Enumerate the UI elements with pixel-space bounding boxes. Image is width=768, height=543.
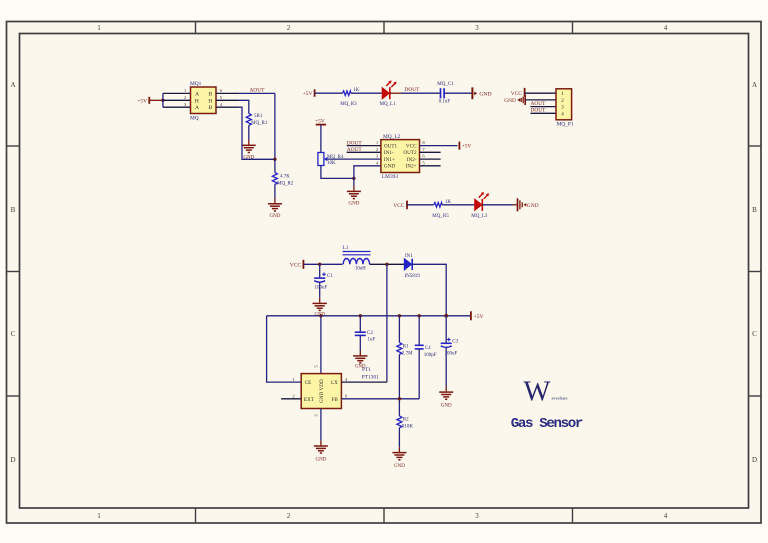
power GND port (row1) [472,87,491,99]
svg-text:2: 2 [287,24,291,32]
svg-text:B: B [11,206,16,214]
wire MQ1 pin6 stub [216,92,239,94]
svg-text:VCC: VCC [393,203,404,209]
svg-text:L1: L1 [343,246,349,251]
svg-text:GND: GND [348,202,359,207]
wire MQ1 pin1 [163,92,191,94]
wire MQ_R4 bottom [321,166,354,179]
border row ticks left [7,146,20,396]
wire LX pin [341,381,387,383]
svg-text:GND: GND [269,214,280,219]
svg-text:GND: GND [527,203,539,209]
svg-text:B: B [752,206,757,214]
wire C3 to ground [445,347,447,387]
wire pin1 stub [347,145,381,147]
wire pin3 stub [531,106,557,108]
svg-text:MQ_P1: MQ_P1 [557,121,574,127]
potentiometer MQ_R4 wiper arrow [324,157,328,161]
wire rail to CE [267,316,302,382]
power GND port (row3) [518,198,539,211]
svg-text:Gas Sensor: Gas Sensor [511,416,583,432]
svg-text:A: A [195,105,199,111]
wire VDD vertical [320,316,322,374]
ground GND (PT1301) [314,446,328,453]
wire VCC to L1 [303,263,342,265]
svg-text:A: A [752,81,757,89]
capacitor C1 polarized [314,273,326,283]
wire C2 top [359,316,361,332]
wire L1 to diode [370,263,405,265]
component MQ_L2 body [381,140,420,173]
svg-text:910K: 910K [402,424,414,429]
svg-text:5R1: 5R1 [254,114,263,119]
PT1301 inside labels [304,379,339,403]
wire C4 top [418,316,420,345]
ground GND (C3) [439,392,453,399]
svg-text:EXT: EXT [304,397,315,403]
pin numbers MQ1 right [220,88,223,107]
power GND port (P1) [504,95,525,105]
svg-text:IN1-: IN1- [384,150,394,156]
svg-text:MQ: MQ [190,116,199,122]
wire wiper to pin3 [327,158,381,160]
wire C1 to ground [319,282,321,298]
svg-text:MQ_R2: MQ_R2 [277,182,294,187]
svg-text:GND VDD: GND VDD [319,379,325,403]
svg-text:4: 4 [664,24,668,32]
svg-text:DOUT: DOUT [531,108,547,114]
svg-text:1K: 1K [353,88,360,93]
wire pin5 stub [420,165,441,167]
svg-text:MQ_L1: MQ_L1 [380,102,397,107]
node C2 junction [359,314,362,317]
wire diode to +5V corner [412,264,446,316]
node FB/R1/R2 junction [398,397,401,400]
wire pin5 to SR1 [239,100,249,113]
diode IN1 1N5819 [404,254,420,279]
pin numbers MQ1 left [184,88,187,107]
wire VCC to pin1 [525,92,556,94]
svg-text:+5V: +5V [474,314,484,320]
svg-text:2: 2 [287,512,291,520]
inductor L1 [343,246,371,271]
svg-text:A: A [10,81,15,89]
wire FB line [341,398,419,400]
wire MQ1 pin5 stub [216,99,239,101]
border zone letters left [10,81,15,464]
wire pin4 to junction [354,166,381,179]
ground GND (MQ_R1) [242,145,256,152]
wire MQ_L3 to GND [482,204,512,206]
border zone numbers bottom [97,512,668,520]
node AOUT/R2 junction [273,158,276,161]
wire pin8 to +5V [420,145,458,147]
wire MQ1 pin4 stub [216,106,239,108]
svg-text:10uH: 10uH [355,266,366,271]
component MQ1 body [191,87,217,114]
svg-text:VCC: VCC [290,263,302,269]
wire C2 to ground [359,335,361,350]
wire C4 to FB [418,349,420,399]
capacitor C4 [415,345,424,349]
MQ1 inside labels [195,91,213,111]
power +5V (rail) [471,311,484,320]
wire MQ1 pin2 [163,99,191,101]
svg-text:0.1uF: 0.1uF [439,100,451,105]
svg-text:C3: C3 [452,339,458,344]
svg-text:C1: C1 [327,274,333,279]
wire LX vertical [386,264,388,382]
wire MQ_R1 to ground [248,125,250,140]
power +5V (pin8) [459,142,471,150]
svg-text:W: W [524,377,551,408]
wire EXT stub [281,398,301,400]
wire pin7 stub [420,151,441,153]
LED MQ_L3 [475,192,489,211]
wire R1 top [398,316,400,343]
svg-text:B: B [209,105,213,111]
ground GND (C2) [353,356,367,363]
wire GND to pin2 [525,99,556,101]
svg-text:OUT1: OUT1 [384,143,398,149]
node +5V junction [161,99,164,102]
wire VCC to MQ_R5 [407,204,434,206]
node C1 junction [318,263,321,266]
svg-text:MQ1: MQ1 [190,81,202,87]
svg-text:+5V: +5V [303,91,313,97]
resistor MQ_R5 zigzag [434,203,443,208]
svg-text:D: D [10,456,15,464]
svg-text:GND: GND [441,403,452,408]
wire LED cathode stub [390,92,401,94]
resistor R2 zigzag [397,416,402,428]
svg-text:VCC: VCC [511,91,522,97]
connector MQ_P1 body [556,89,572,120]
ground GND (LM393) [347,191,361,198]
svg-text:PT1: PT1 [362,367,371,373]
svg-text:C2: C2 [367,331,373,336]
svg-text:MQ_R3: MQ_R3 [340,102,357,107]
svg-text:1: 1 [97,512,101,520]
wire MQ1 pin3 [163,106,191,108]
node C4 junction [418,314,421,317]
svg-text:GND: GND [504,98,516,104]
wire junction to ground [353,178,355,186]
node R4/GND junction [352,177,355,180]
svg-text:GND: GND [384,164,395,170]
border zone letters right [752,81,757,464]
svg-text:IN1+: IN1+ [384,157,395,163]
svg-text:MQ_R1: MQ_R1 [251,121,268,126]
svg-text:OUT2: OUT2 [403,150,417,156]
svg-text:aveshare: aveshare [552,396,568,401]
border zone numbers top [97,24,668,32]
wire C3 top [445,316,447,343]
node VDD junction [319,314,322,317]
node diode/C3 junction [444,314,448,318]
wire PT1301 GND pin [320,409,322,441]
svg-text:LM393: LM393 [382,174,398,180]
svg-text:C: C [11,330,16,338]
svg-text:B: B [209,91,213,97]
svg-text:MQ_R5: MQ_R5 [432,214,449,219]
LED MQ_L1 [382,81,396,100]
power VCC (row3) [393,201,407,210]
svg-text:10K: 10K [327,161,336,166]
power VCC (boost input) [290,260,304,269]
svg-text:IN1: IN1 [405,254,413,259]
pin numbers LM393 left [376,140,379,165]
ground GND (MQ_R2) [268,204,282,211]
wire pin6 stub [420,158,441,160]
power +5V (row1) [303,89,315,97]
svg-text:MQ_C1: MQ_C1 [437,82,454,87]
border row ticks right [749,146,762,396]
svg-text:GND: GND [315,457,326,462]
border column ticks top [196,22,573,34]
node LX junction [385,263,388,266]
capacitor C3 polarized [441,338,452,348]
ground GND (R2) [392,453,406,460]
wire AOUT vertical [274,93,276,159]
svg-text:H: H [195,98,199,104]
svg-text:DOUT: DOUT [405,87,421,93]
wire DOUT to MQ_C1 [401,92,440,94]
svg-text:MQ_L2: MQ_L2 [383,134,401,140]
svg-text:3: 3 [475,24,479,32]
resistor MQ_R1 zigzag [246,114,251,126]
svg-text:GND: GND [479,91,491,97]
svg-text:4: 4 [664,512,668,520]
svg-text:FB: FB [332,397,339,403]
svg-text:C: C [752,330,757,338]
potentiometer MQ_R4 body [318,153,324,166]
svg-text:LX: LX [331,380,338,386]
svg-text:100pF: 100pF [424,353,437,358]
svg-text:A: A [195,91,199,97]
wire MQ1 left vertical [162,93,164,107]
wire MQ_R5 to MQ_L3 [442,204,475,206]
svg-text:1uF: 1uF [368,338,376,343]
MQ_P1 pin numbers [561,92,564,117]
wire +5V to MQ_R4 [320,125,322,153]
svg-text:4.7K: 4.7K [280,175,290,180]
wire pin4 stub [531,112,557,114]
border column ticks bottom [196,508,573,523]
svg-text:IN5819: IN5819 [405,274,421,279]
resistor MQ_R3 zigzag [343,91,352,96]
power VCC (P1) [511,88,525,97]
wire AOUT horizontal [239,92,275,94]
svg-text:1: 1 [97,24,101,32]
power +5V (MQ1) [137,97,163,105]
svg-text:R1: R1 [403,344,409,349]
svg-text:IN2-: IN2- [407,157,417,163]
svg-text:C4: C4 [425,346,431,351]
resistor MQ_R2 zigzag [272,173,277,185]
node R1 junction [398,314,401,317]
svg-text:100uF: 100uF [315,286,328,291]
wire C1 top [319,264,321,277]
wire +5V to MQ_R3 [315,92,343,94]
svg-text:+5V: +5V [137,98,147,104]
svg-text:R2: R2 [403,417,409,422]
pin numbers LM393 right [422,140,425,165]
svg-text:AOUT: AOUT [250,87,266,93]
svg-text:MQ_L3: MQ_L3 [471,214,488,219]
wire +5V rail [267,315,471,317]
capacitor MQ_C1 [441,88,445,98]
capacitor C2 [355,332,366,335]
svg-text:D: D [752,456,757,464]
svg-text:GND: GND [394,464,405,469]
svg-text:AOUT: AOUT [531,101,547,107]
svg-text:VCC: VCC [406,143,417,149]
wire pin2 stub [347,151,381,153]
svg-text:CE: CE [305,380,312,386]
svg-text:2.7M: 2.7M [402,351,413,356]
power +5V (R4 top) [315,119,326,125]
wire R1 to FB [398,354,400,416]
wire junction to MQ_R2 [274,159,276,172]
MQ_L2 inside labels [384,143,398,169]
resistor R1 zigzag [397,343,402,355]
ground GND (C1) [313,303,327,310]
svg-text:1K: 1K [445,200,452,205]
wire MQ_R2 to ground [274,184,276,198]
svg-text:+5V: +5V [462,144,472,150]
svg-text:IN2+: IN2+ [406,164,417,170]
wire MQ_C1 to GND [445,92,472,94]
svg-text:3: 3 [475,512,479,520]
svg-text:PT1301: PT1301 [362,375,379,381]
wire pin4 down-right [239,107,275,159]
wire MQ_R3 to MQ_L1 [351,92,382,94]
component PT1301 body [301,374,341,409]
wire R2 to ground [398,428,400,448]
svg-text:H: H [208,98,212,104]
